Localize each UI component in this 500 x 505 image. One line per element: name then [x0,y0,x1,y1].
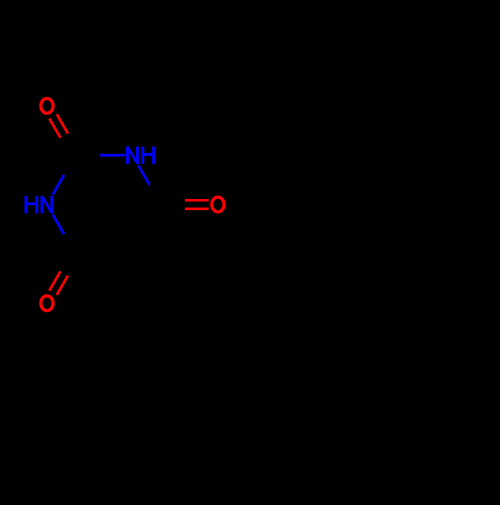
bond N1-C6 (blue half) [138,165,149,185]
bond C5-C4 [75,253,132,256]
atom N3 label HN [25,196,54,213]
bond C6=O6 (red half, double) [185,200,209,209]
bond C6-C5 [132,205,161,254]
bond C2=O2 (red half, double) [49,114,68,138]
bond N3-C4 (blue half) [53,214,64,234]
bond C4=O4 (red half, double) [49,271,68,295]
atom O6 (right carbonyl oxygen) [212,197,224,212]
atom N1 label NH [126,146,155,163]
bond N3-C4 (black half) [64,234,75,254]
bond N1-C2 (black half) [75,154,100,157]
bond C5-CH1 (substituent) [132,254,181,283]
bond N1-C6 (black half) [150,185,161,205]
bond C4=O4 (black half, double) [61,252,80,276]
atom O4 (bottom carbonyl oxygen) [41,296,53,311]
bond C6=O6 (black half, double) [161,200,185,209]
bond CH1-CH2 (substituent) [182,254,231,283]
bond N3-C2 (blue half) [53,175,64,195]
bond C2=O2 (black half, double) [61,134,80,158]
atom O2 (top carbonyl oxygen) [41,98,53,113]
bond N3-C2 (black half) [64,155,75,175]
bond N1-C2 (blue half) [100,154,125,157]
